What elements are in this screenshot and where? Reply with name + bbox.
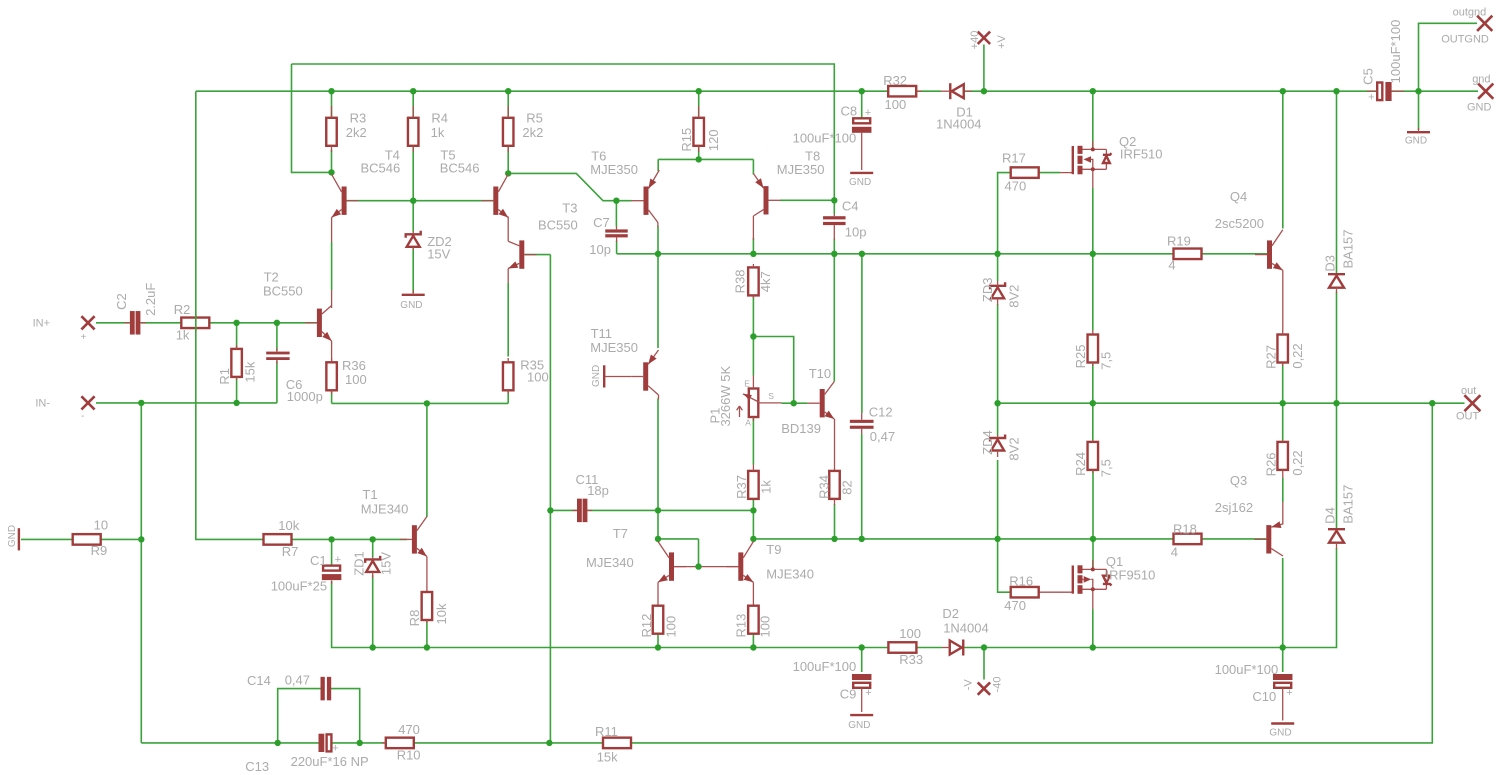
wire P1 to R37 — [752, 417, 754, 464]
svg-text:IN+: IN+ — [33, 318, 50, 330]
svg-text:IRF9510: IRF9510 — [1106, 568, 1156, 583]
svg-text:C7: C7 — [593, 215, 610, 230]
capacitor C6 — [266, 348, 323, 404]
svg-text:GND: GND — [1467, 102, 1492, 114]
svg-text:R4: R4 — [431, 111, 448, 126]
capacitor C11 — [572, 472, 609, 522]
transistor T11 — [590, 326, 658, 400]
svg-text:10: 10 — [94, 517, 108, 532]
svg-text:BD139: BD139 — [781, 421, 821, 436]
resistor R15 — [679, 106, 721, 152]
svg-text:BC550: BC550 — [263, 284, 303, 299]
resistor R5 — [503, 106, 543, 152]
ground GND (T11 base) — [591, 365, 631, 388]
svg-text:4k7: 4k7 — [758, 271, 773, 292]
transistor T9 — [726, 542, 814, 583]
resistor R17 — [1002, 151, 1039, 194]
wire net OUT rail — [631, 292, 1464, 743]
svg-text:A: A — [745, 418, 751, 428]
svg-text:OUT: OUT — [1456, 411, 1480, 423]
svg-text:MJE350: MJE350 — [777, 162, 825, 177]
svg-text:C5: C5 — [1360, 68, 1375, 85]
svg-text:2sc5200: 2sc5200 — [1215, 216, 1264, 231]
svg-text:IN-: IN- — [35, 398, 50, 410]
svg-text:GND: GND — [1405, 136, 1427, 147]
svg-text:R13: R13 — [733, 614, 748, 638]
svg-text:100uF*100: 100uF*100 — [793, 131, 857, 146]
svg-text:C2: C2 — [114, 293, 129, 310]
svg-text:R9: R9 — [91, 543, 108, 558]
ground GND (C8) — [849, 173, 873, 188]
resistor R25 — [1073, 330, 1114, 370]
svg-text:R5: R5 — [526, 111, 543, 126]
svg-text:T2: T2 — [264, 270, 279, 285]
input flag IN- — [35, 396, 94, 422]
wire R26 to Q3 emitter — [1282, 473, 1284, 525]
capacitor C1 — [271, 553, 342, 594]
svg-text:ZD3: ZD3 — [980, 278, 995, 303]
resistor R27 — [1264, 330, 1306, 369]
svg-text:T9: T9 — [766, 542, 781, 557]
svg-text:R36: R36 — [342, 358, 366, 373]
resistor R19 — [1167, 234, 1202, 273]
ground GND (output) — [1405, 128, 1430, 147]
wire net VAS input — [332, 217, 509, 518]
transistor Q3 — [1215, 473, 1283, 556]
wire ZD2 anode to GND — [412, 249, 414, 294]
zener diode ZD1 — [351, 551, 393, 578]
svg-text:18p: 18p — [587, 483, 609, 498]
wire net T1 base — [292, 536, 407, 565]
resistor R33 — [888, 626, 923, 667]
ground GND (C9) — [848, 715, 873, 731]
svg-text:C9: C9 — [840, 686, 857, 701]
wire T7 emitter to R12 — [657, 582, 659, 606]
capacitor C4 — [823, 199, 866, 241]
svg-text:100: 100 — [663, 616, 678, 638]
transistor T5 — [440, 148, 509, 218]
svg-text:470: 470 — [1005, 178, 1027, 193]
svg-text:15k: 15k — [242, 361, 257, 382]
transistor T10 — [781, 366, 834, 436]
svg-text:MJE340: MJE340 — [586, 555, 634, 570]
wire net lower rail — [655, 434, 1267, 592]
svg-text:15V: 15V — [427, 247, 450, 262]
svg-text:0,22: 0,22 — [1290, 343, 1305, 368]
svg-text:470: 470 — [1004, 598, 1026, 613]
svg-text:2.2uF: 2.2uF — [143, 283, 158, 316]
resistor R11 — [595, 724, 631, 765]
svg-text:R16: R16 — [1009, 574, 1033, 589]
svg-text:Q3: Q3 — [1230, 473, 1247, 488]
svg-text:3266W 5K: 3266W 5K — [718, 366, 733, 427]
svg-text:+: + — [1286, 687, 1292, 699]
capacitor C9 — [793, 659, 872, 712]
transistor T3 — [508, 201, 578, 269]
svg-text:R25: R25 — [1073, 345, 1088, 369]
svg-text:+: + — [335, 554, 341, 566]
supply flag +40/+V — [969, 31, 1008, 50]
svg-text:100: 100 — [345, 372, 367, 387]
svg-text:T7: T7 — [613, 526, 628, 541]
svg-text:1k: 1k — [758, 480, 773, 494]
svg-text:0,47: 0,47 — [285, 673, 310, 688]
svg-text:gnd: gnd — [1472, 74, 1490, 86]
wire net -V rail — [332, 548, 1337, 680]
svg-text:10p: 10p — [589, 242, 611, 257]
svg-text:BA157: BA157 — [1340, 485, 1355, 524]
wire R9 to node — [21, 538, 141, 540]
wire net T4-T5 base — [347, 146, 494, 232]
transistor T2 — [263, 270, 332, 342]
output flag OUT — [1456, 385, 1480, 423]
transistor T7 — [586, 526, 686, 582]
svg-text:outgnd: outgnd — [1453, 7, 1487, 19]
svg-text:10k: 10k — [434, 603, 449, 624]
svg-text:120: 120 — [706, 129, 721, 151]
svg-text:100: 100 — [885, 97, 907, 112]
svg-text:R3: R3 — [350, 111, 367, 126]
svg-text:R26: R26 — [1264, 452, 1279, 476]
svg-text:220uF*16 NP: 220uF*16 NP — [291, 754, 369, 769]
svg-text:GND: GND — [848, 720, 870, 731]
svg-text:OUTGND: OUTGND — [1441, 33, 1489, 45]
wire net R15 emitters rail — [658, 146, 753, 175]
svg-text:E: E — [744, 379, 750, 389]
svg-text:8V2: 8V2 — [1006, 285, 1021, 308]
svg-text:100: 100 — [899, 626, 921, 641]
wire net bias pot — [750, 296, 808, 407]
svg-text:T3: T3 — [562, 201, 577, 216]
svg-text:R10: R10 — [397, 747, 421, 762]
svg-text:MJE350: MJE350 — [590, 340, 638, 355]
capacitor C2 — [114, 283, 158, 335]
svg-text:2k2: 2k2 — [346, 125, 367, 140]
svg-text:ZD1: ZD1 — [351, 551, 366, 576]
ground flag outgnd — [1441, 7, 1492, 46]
svg-text:4: 4 — [1171, 545, 1178, 560]
svg-text:BC550: BC550 — [538, 218, 578, 233]
svg-text:15k: 15k — [597, 750, 618, 765]
svg-text:+: + — [865, 107, 871, 119]
resistor R9 — [73, 517, 108, 558]
svg-text:R11: R11 — [595, 724, 618, 739]
supply flag -V/-40 — [962, 676, 1003, 694]
wire net VAS rail — [617, 173, 1267, 413]
capacitor C14 — [247, 673, 331, 701]
diode D3 — [1323, 229, 1356, 293]
svg-text:R15: R15 — [679, 128, 694, 152]
svg-text:C1: C1 — [310, 553, 327, 568]
svg-text:R2: R2 — [174, 302, 191, 317]
wire net +V rail — [196, 23, 1478, 539]
capacitor C7 — [589, 215, 627, 257]
svg-text:R27: R27 — [1264, 345, 1279, 369]
zener diode ZD4 — [980, 430, 1021, 460]
wire net IN+ — [96, 320, 317, 351]
resistor R1 — [217, 345, 257, 385]
svg-text:2sj162: 2sj162 — [1215, 500, 1253, 515]
svg-text:R24: R24 — [1073, 452, 1088, 476]
svg-text:-: - — [81, 411, 84, 422]
ground GND (ZD2) — [400, 290, 424, 311]
svg-text:out: out — [1461, 385, 1476, 397]
capacitor C8 — [793, 104, 872, 171]
svg-text:GND: GND — [1269, 727, 1291, 738]
resistor R4 — [408, 106, 448, 152]
svg-text:100uF*100: 100uF*100 — [1215, 662, 1279, 677]
zener diode ZD3 — [980, 278, 1021, 308]
wire net comp rail C11 — [524, 255, 756, 743]
svg-text:82: 82 — [840, 480, 855, 494]
svg-text:GND: GND — [849, 177, 871, 188]
resistor R7 — [264, 518, 300, 559]
potentiometer P1 — [708, 366, 782, 428]
svg-text:0,22: 0,22 — [1290, 450, 1305, 475]
resistor R26 — [1264, 440, 1306, 476]
svg-text:D2: D2 — [942, 606, 959, 621]
svg-text:MJE340: MJE340 — [361, 502, 409, 517]
resistor R34 — [816, 471, 854, 505]
ground GND (C10) — [1269, 724, 1294, 739]
svg-text:100: 100 — [757, 616, 772, 638]
svg-text:GND: GND — [591, 365, 602, 387]
svg-text:MJE340: MJE340 — [766, 567, 814, 582]
svg-text:R34: R34 — [816, 475, 831, 499]
svg-text:IRF510: IRF510 — [1120, 147, 1163, 162]
svg-text:BA157: BA157 — [1340, 229, 1355, 268]
transistor T1 — [361, 487, 427, 557]
svg-text:+V: +V — [996, 34, 1008, 48]
transistor T8 — [753, 149, 824, 241]
svg-text:+40: +40 — [969, 31, 981, 50]
svg-text:1k: 1k — [431, 125, 445, 140]
wire T1 emitter to R8 — [426, 557, 428, 593]
mosfet Q2 — [1039, 134, 1163, 188]
zener diode ZD2 — [406, 231, 452, 262]
wire net T6 base — [505, 146, 632, 227]
svg-text:BC546: BC546 — [361, 161, 401, 176]
svg-text:0,47: 0,47 — [870, 429, 895, 444]
svg-text:1N4004: 1N4004 — [936, 116, 982, 131]
svg-text:R33: R33 — [899, 652, 923, 667]
svg-text:7,5: 7,5 — [1099, 459, 1114, 477]
diode D4 — [1323, 485, 1356, 549]
svg-text:T1: T1 — [362, 487, 377, 502]
resistor R18 — [1171, 522, 1202, 560]
svg-text:ZD4: ZD4 — [980, 430, 995, 455]
resistor R24 — [1073, 440, 1114, 477]
svg-text:10p: 10p — [845, 225, 867, 240]
svg-text:1N4004: 1N4004 — [943, 621, 989, 636]
svg-text:R7: R7 — [282, 544, 299, 559]
svg-text:C8: C8 — [841, 104, 858, 119]
svg-text:R8: R8 — [407, 610, 422, 627]
resistor R10 — [382, 722, 421, 762]
resistor R36 — [326, 358, 366, 394]
svg-text:T10: T10 — [809, 366, 831, 381]
svg-text:C10: C10 — [1252, 689, 1276, 704]
transistor T4 — [332, 148, 401, 218]
svg-text:R12: R12 — [639, 614, 654, 638]
capacitor C13 — [245, 734, 368, 774]
svg-text:D3: D3 — [1323, 255, 1338, 272]
svg-text:-V: -V — [962, 679, 974, 691]
svg-text:100: 100 — [527, 369, 549, 384]
svg-text:C4: C4 — [842, 199, 859, 214]
svg-text:R38: R38 — [732, 269, 747, 293]
transistor T6 — [590, 149, 659, 228]
ground flag gnd — [1467, 74, 1493, 114]
svg-text:R19: R19 — [1167, 234, 1191, 249]
svg-text:100uF*25: 100uF*25 — [271, 579, 327, 594]
resistor R37 — [734, 465, 773, 499]
svg-text:R1: R1 — [217, 368, 232, 385]
diode D2 — [942, 606, 989, 656]
wire T10 emitter to R34 — [834, 419, 836, 471]
resistor R32 — [883, 73, 922, 112]
wire net IN- — [96, 361, 319, 743]
svg-text:10k: 10k — [278, 518, 299, 533]
resistor R38 — [732, 264, 773, 298]
svg-text:C12: C12 — [869, 404, 893, 419]
svg-text:2k2: 2k2 — [522, 125, 543, 140]
svg-text:15V: 15V — [378, 552, 393, 575]
svg-text:100uF*100: 100uF*100 — [793, 659, 857, 674]
wire net N-T8BASE top rail — [292, 64, 838, 214]
svg-text:8V2: 8V2 — [1006, 437, 1021, 460]
diode D1 — [936, 83, 982, 131]
resistor R35 — [503, 358, 549, 394]
svg-text:100uF*100: 100uF*100 — [1388, 20, 1403, 84]
input flag IN+ — [33, 316, 95, 343]
svg-text:R17: R17 — [1002, 151, 1026, 166]
svg-text:Q4: Q4 — [1230, 189, 1247, 204]
wire T9 emitter to R13 — [752, 582, 754, 606]
resistor R16 — [1004, 574, 1038, 613]
svg-text:GND: GND — [400, 300, 422, 311]
wire Q4 emitter to R27 — [1282, 270, 1284, 330]
resistor R3 — [326, 106, 367, 152]
resistor R12 — [639, 606, 678, 638]
mosfet Q1 — [1039, 554, 1155, 609]
capacitor C5 — [1360, 20, 1404, 104]
svg-text:1000p: 1000p — [287, 389, 323, 404]
svg-text:R18: R18 — [1173, 522, 1197, 537]
svg-text:T11: T11 — [591, 326, 612, 341]
capacitor C10 — [1215, 662, 1293, 721]
svg-text:+: + — [81, 332, 87, 343]
svg-text:1k: 1k — [176, 327, 190, 342]
svg-text:7,5: 7,5 — [1099, 352, 1114, 370]
svg-text:GND: GND — [7, 525, 18, 547]
svg-text:MJE350: MJE350 — [590, 162, 638, 177]
transistor Q4 — [1215, 189, 1283, 270]
svg-text:R37: R37 — [734, 475, 749, 499]
svg-text:S: S — [768, 391, 774, 401]
svg-text:D4: D4 — [1323, 507, 1338, 524]
svg-text:-40: -40 — [992, 676, 1004, 692]
svg-text:C13: C13 — [245, 759, 269, 774]
resistor R2 — [174, 302, 210, 342]
svg-text:+: + — [332, 743, 338, 755]
svg-text:470: 470 — [398, 722, 420, 737]
wire net feedback bottom — [275, 689, 603, 747]
svg-text:+: + — [865, 687, 871, 699]
ground GND (R9) — [7, 525, 19, 551]
svg-text:BC546: BC546 — [440, 161, 480, 176]
svg-text:C14: C14 — [247, 673, 271, 688]
capacitor C12 — [850, 404, 895, 444]
svg-text:R32: R32 — [883, 73, 907, 88]
svg-text:4: 4 — [1168, 258, 1175, 273]
wire +V vertical over R2 — [195, 314, 197, 332]
resistor R8 — [407, 592, 449, 626]
svg-text:+: + — [1368, 92, 1374, 104]
resistor R13 — [733, 606, 772, 638]
